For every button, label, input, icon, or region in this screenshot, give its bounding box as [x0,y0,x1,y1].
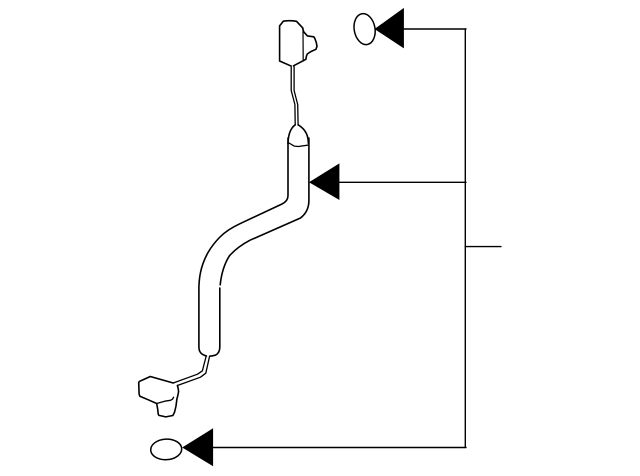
bottom connector body with tab [139,377,179,417]
callout arrow top [375,8,404,49]
callout tick right [465,246,501,248]
callout line top [403,28,466,30]
top connector inner line [302,28,304,61]
top connector body [280,21,317,66]
tube bell top, right side [298,125,308,144]
callout arrow middle [309,163,339,200]
tube right edge upper (to break) [220,138,309,285]
tube bell top, left side [288,125,295,144]
tube right edge lower (from break) [210,288,220,356]
callout arrow bottom [182,428,213,466]
callout line bottom [213,447,467,449]
lower wire, lower line [177,356,209,385]
lower wire, upper line [173,356,206,383]
wire from top connector, left line [291,66,295,125]
callout ellipse bottom [150,438,182,460]
tube left edge [199,138,288,356]
callout line middle [339,181,467,183]
wire from top connector, right line [294,66,298,125]
bottom connector inner ledge [157,397,174,403]
callout ellipse top [352,12,378,46]
tube cap line [288,143,308,147]
callout vertical line right [464,29,466,448]
